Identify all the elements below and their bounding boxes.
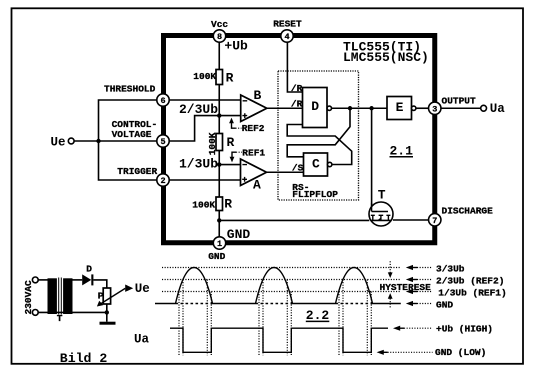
node transistor gate junction dot: [369, 106, 373, 110]
ground symbol: [100, 322, 116, 325]
resistor R (bottom 100K): [216, 197, 223, 211]
node D output junction dot: [348, 106, 352, 110]
label 2.1: [390, 144, 414, 159]
arrow row GND: [406, 301, 433, 306]
svg-text:/R: /R: [291, 99, 303, 110]
wire pin5 elbow to node 2/3Ub: [169, 116, 219, 141]
hysterese upper arrow: [388, 261, 393, 278]
svg-text:Ue: Ue: [135, 282, 150, 296]
wire bottom R to GND node: [218, 211, 220, 238]
hysterese lower arrow: [388, 293, 393, 307]
wire junction up to pin6: [99, 100, 158, 141]
svg-text:REF2: REF2: [242, 123, 265, 134]
svg-text:GND (LOW): GND (LOW): [435, 347, 486, 358]
svg-text:FLIPFLOP: FLIPFLOP: [292, 189, 338, 200]
pin 5 CONTROL-VOLTAGE: [157, 135, 169, 147]
RS-flipflop dotted box: [278, 71, 359, 200]
arrow row 1/3Ub: [406, 289, 433, 294]
wire junction down to pin2: [99, 141, 158, 180]
svg-text:/R: /R: [291, 83, 303, 94]
svg-text:100K: 100K: [207, 132, 218, 155]
wire feedback D output to C input (cross): [287, 108, 350, 157]
svg-text:OUTPUT: OUTPUT: [442, 96, 477, 107]
svg-text:R: R: [227, 135, 235, 150]
svg-text:2/3Ub (REF2): 2/3Ub (REF2): [436, 275, 504, 286]
wire diode to potentiometer: [93, 280, 106, 288]
svg-text:3: 3: [432, 104, 437, 114]
svg-text:7: 7: [432, 216, 437, 226]
crossing marker dotted verticals pulse 2: [259, 280, 291, 356]
pin 7 DISCHARGE: [429, 214, 441, 226]
IC body TLC555 thick box: [164, 36, 435, 243]
wire pin2 to comparator A plus input: [169, 179, 241, 181]
svg-text:+Ub: +Ub: [224, 39, 248, 54]
label 2.2: [306, 308, 330, 323]
wire node 1/3Ub to comparator A minus input: [219, 164, 240, 166]
svg-text:C: C: [312, 157, 320, 172]
svg-text:1: 1: [217, 239, 222, 249]
svg-text:P: P: [98, 291, 104, 302]
resistor R (top 100K): [216, 70, 223, 85]
svg-text:8: 8: [217, 32, 222, 42]
output terminal Ua: [481, 105, 487, 111]
svg-text:THRESHOLD: THRESHOLD: [104, 84, 156, 95]
wire pin4 to gate D input /R: [287, 42, 302, 92]
svg-text:100K: 100K: [192, 199, 215, 210]
svg-text:VOLTAGE: VOLTAGE: [112, 129, 152, 140]
buffer E output bubble: [412, 106, 416, 110]
svg-text:HYSTERESE: HYSTERESE: [380, 282, 432, 293]
svg-text:B: B: [254, 88, 262, 103]
svg-text:3/3Ub: 3/3Ub: [436, 263, 465, 274]
wire comparator A output to gate C input /S: [267, 171, 304, 173]
waveform GND baseline (solid with dashed sections): [155, 303, 401, 305]
pin 3 OUTPUT: [429, 102, 441, 114]
pin 8 Vcc: [213, 30, 225, 42]
svg-text:+Ub (HIGH): +Ub (HIGH): [436, 323, 493, 334]
waveform Ue half-sine pulse 3: [336, 268, 373, 304]
arrow row GND LOW: [377, 350, 433, 355]
gate C (NAND): [304, 153, 328, 176]
svg-text:1/3Ub (REF1): 1/3Ub (REF1): [438, 287, 506, 298]
wire top terminal to transformer: [38, 279, 48, 281]
pin 4 RESET: [281, 30, 293, 42]
GND node junction dot: [217, 218, 221, 222]
waveform reference line 2/3Ub (dotted): [162, 279, 401, 281]
svg-text:A: A: [253, 178, 261, 193]
op-amp comparator A: [241, 159, 267, 186]
crossing marker dotted verticals pulse 1: [179, 280, 211, 356]
wire buffer E to pin3: [416, 107, 429, 109]
node supply junction dot: [105, 310, 109, 314]
wire pin6 to comparator B minus input: [169, 99, 241, 101]
svg-text:Vcc: Vcc: [211, 19, 228, 30]
wire pin8 to resistor R top: [218, 42, 220, 70]
svg-text:LMC555(NSC): LMC555(NSC): [343, 50, 429, 65]
pin 6 THRESHOLD: [157, 94, 169, 106]
svg-text:Ua: Ua: [134, 332, 150, 346]
waveform Ua square wave: [170, 328, 388, 352]
wire transistor to pin7: [393, 219, 429, 221]
svg-text:GND: GND: [436, 299, 453, 310]
potentiometer P: [97, 288, 125, 307]
svg-text:T: T: [378, 188, 386, 203]
gate C output bubble: [328, 162, 332, 166]
svg-text:DISCHARGE: DISCHARGE: [442, 206, 494, 217]
gate D output bubble: [327, 106, 331, 110]
svg-text:4: 4: [284, 32, 289, 42]
node 1/3Ub junction dot: [217, 162, 221, 166]
svg-text:R: R: [224, 196, 232, 211]
svg-text:T: T: [57, 313, 63, 324]
waveform reference line 3/3Ub (dotted): [162, 267, 401, 269]
svg-text:6: 6: [160, 96, 165, 106]
svg-text:Ua: Ua: [490, 102, 506, 116]
mains terminal top 230VAC: [32, 277, 38, 283]
gate D (NAND): [303, 88, 328, 128]
waveform Ue half-sine pulse 1: [176, 268, 213, 304]
svg-text:/S: /S: [292, 163, 304, 174]
arrow row 2/3Ub: [406, 277, 433, 282]
node 2/3Ub junction dot: [217, 113, 221, 117]
wire secondary top to diode: [71, 279, 82, 281]
transistor T (MOSFET): [369, 202, 393, 226]
svg-text:5: 5: [160, 137, 165, 147]
svg-text:GND: GND: [227, 227, 251, 242]
ground stub wire: [106, 312, 108, 321]
wire bottom terminal to junction: [38, 311, 107, 313]
wire junction to pin5: [99, 140, 158, 142]
svg-text:230VAC: 230VAC: [23, 280, 34, 315]
wire gate junction down to transistor T gate: [371, 108, 373, 211]
wire node 2/3Ub to comparator B plus input: [219, 115, 240, 117]
resistor R (middle 100K): [216, 134, 223, 151]
op-amp comparator B: [241, 95, 267, 122]
node Ue junction dot: [96, 139, 100, 143]
svg-text:GND: GND: [208, 251, 225, 262]
wire R middle to node 1/3Ub: [218, 151, 220, 198]
waveform Ue half-sine pulse 2: [256, 268, 293, 304]
input terminal Ue: [68, 138, 74, 144]
wire Ue input to junction: [74, 140, 99, 142]
arrow row +Ub HIGH: [393, 326, 433, 331]
svg-text:E: E: [396, 100, 404, 115]
annotation REF2 arrow: [229, 118, 241, 129]
pin 2 TRIGGER: [157, 174, 169, 186]
wire comparator B output to gate D input /R: [267, 107, 303, 109]
svg-text:D: D: [86, 264, 92, 275]
wire pin3 to output terminal Ua: [441, 107, 481, 109]
transformer core: [59, 278, 62, 315]
svg-text:100K: 100K: [193, 71, 216, 82]
wire GND node to transistor: [219, 219, 369, 221]
svg-text:Ue: Ue: [51, 136, 66, 150]
svg-text:2/3Ub: 2/3Ub: [179, 102, 218, 117]
transformer T secondary winding: [63, 278, 72, 314]
annotation REF1 arrow: [230, 152, 242, 162]
arrow row 3/3Ub: [406, 265, 433, 270]
buffer E box: [387, 97, 412, 120]
wire feedback C output to D input (cross): [287, 125, 352, 165]
pin 1 GND: [213, 237, 225, 249]
svg-text:RESET: RESET: [273, 19, 302, 30]
crossing marker dotted verticals pulse 3: [339, 280, 371, 356]
svg-text:R: R: [226, 71, 234, 86]
svg-text:TRIGGER: TRIGGER: [117, 166, 157, 177]
mains terminal bottom 230VAC: [32, 310, 38, 316]
wire potentiometer bottom to junction: [106, 304, 108, 312]
transformer T primary winding: [48, 278, 57, 314]
svg-text:Bild 2: Bild 2: [60, 351, 108, 366]
svg-text:D: D: [311, 99, 319, 114]
wire gate D output to buffer E: [332, 107, 388, 109]
svg-text:REF1: REF1: [242, 147, 265, 158]
diode D: [82, 274, 93, 285]
wire R top to node 2/3Ub: [218, 85, 220, 134]
arrow to Ue output: [125, 285, 133, 292]
waveform reference line 1/3Ub (dotted): [162, 291, 401, 293]
svg-text:1/3Ub: 1/3Ub: [179, 157, 218, 172]
svg-text:2: 2: [160, 176, 165, 186]
